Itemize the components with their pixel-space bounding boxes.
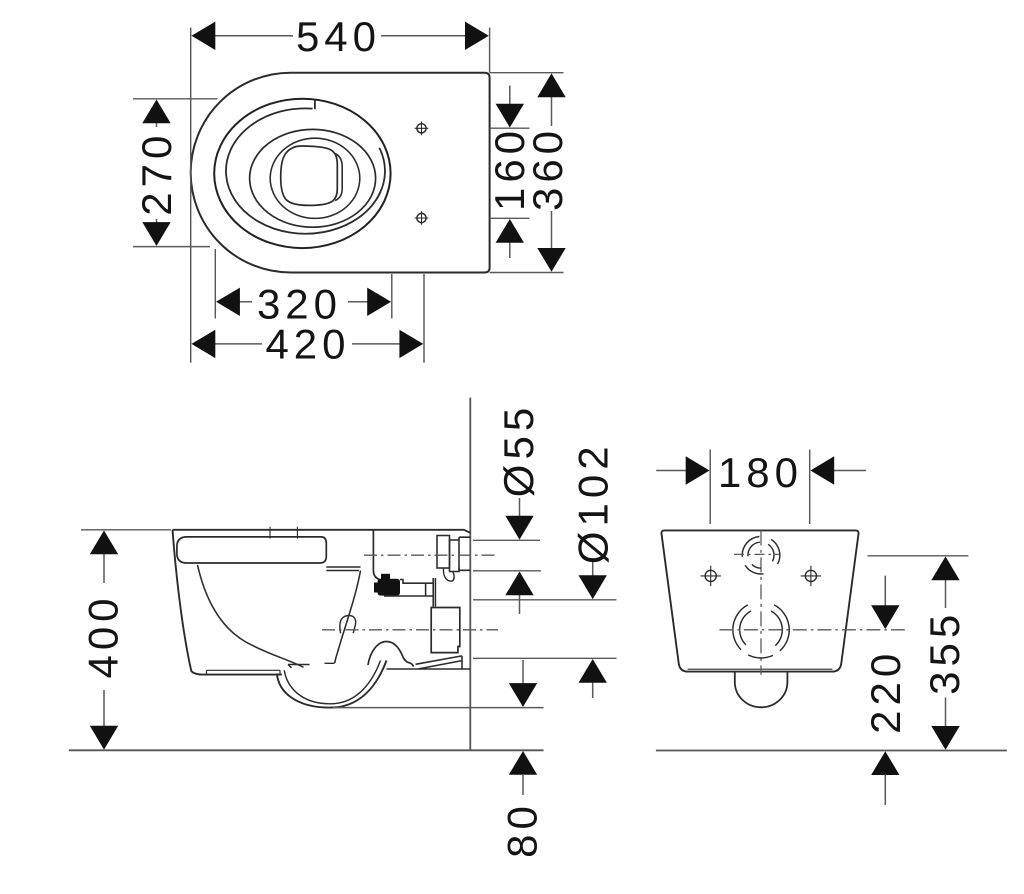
dimension 80 leader top	[522, 660, 524, 684]
svg-text:80: 80	[499, 801, 546, 858]
bowl interior back curve	[335, 571, 361, 664]
dimension Ø55 tick top	[473, 539, 540, 541]
svg-text:Ø102: Ø102	[570, 441, 617, 564]
svg-text:360: 360	[524, 126, 571, 211]
dimension 400 arrow bottom	[90, 726, 118, 750]
dimension 180 arrow left	[686, 456, 710, 484]
dimension 420 line	[214, 343, 400, 345]
dimension 360 line	[551, 94, 553, 250]
svg-text:180: 180	[718, 449, 803, 496]
dimension 270 extension line top	[133, 98, 218, 100]
dimension Ø102 arrow top	[579, 575, 607, 599]
dimension 220 arrow top	[871, 605, 899, 629]
flush rim lines	[326, 567, 360, 571]
dimension 160 arrow top	[496, 104, 524, 128]
dimension 80 arrow top	[509, 683, 537, 707]
dimension 160 leader bottom	[509, 241, 511, 259]
dimension 420 extension line right	[423, 274, 425, 363]
side view bottom inner line	[207, 670, 281, 674]
wall line	[469, 398, 471, 751]
dimension 420 arrow left	[192, 330, 216, 358]
body outline top view (stadium shape)	[191, 73, 490, 273]
dimension 80 leader bottom	[522, 774, 524, 795]
flush distributor pocket	[340, 616, 356, 634]
dimension 400 line	[103, 552, 105, 727]
dimension 320 extension line right	[391, 274, 393, 319]
seat spiral hook connector	[314, 100, 316, 110]
dimension Ø102 arrow bottom	[579, 659, 607, 683]
svg-text:Ø55: Ø55	[495, 403, 542, 497]
dimension 320 line	[238, 301, 370, 303]
dimension Ø102 tick top	[473, 599, 617, 601]
side view front face	[173, 530, 282, 675]
bowl rim outer oval	[250, 129, 376, 227]
dimension 360 arrow top	[537, 73, 565, 97]
seat ring outer oval	[214, 99, 390, 248]
dimension 80 arrow bottom	[509, 751, 537, 775]
valve housing lines	[384, 578, 435, 607]
inlet connector flange	[450, 540, 460, 572]
bowl bottom reference line (80 dim)	[333, 707, 544, 709]
dimension 420 arrow right	[399, 330, 423, 358]
outlet horizontal centerline	[719, 629, 908, 631]
dimension 160 tick top	[490, 127, 530, 129]
dimension Ø55 tick bottom	[473, 570, 541, 572]
dimension 180 extension left	[709, 450, 711, 525]
water surface right bump	[335, 154, 342, 201]
dimension 540 arrow left	[192, 22, 216, 50]
dimension 355 arrow bottom	[931, 726, 959, 750]
dimension 360 extension line top	[490, 72, 564, 74]
bowl interior front curve	[198, 565, 304, 667]
svg-text:270: 270	[133, 131, 180, 216]
dimension 220 leader top	[884, 576, 886, 607]
dimension 220 leader bottom	[884, 774, 886, 805]
dimension 400 arrow top	[90, 531, 118, 555]
outlet bottom slant lines	[387, 656, 471, 669]
bowl underside U outer	[277, 661, 387, 708]
svg-text:540: 540	[296, 13, 381, 60]
rear fixing hole right (crosshair)	[801, 566, 821, 586]
dimension 270 arrow top	[142, 100, 170, 124]
dimension 180 extension right	[809, 450, 811, 525]
seat slab side view	[177, 537, 326, 563]
outlet centerline (dash-dot)	[322, 629, 498, 631]
dimension 540 extension line right	[489, 28, 491, 73]
side view top edge	[173, 530, 471, 533]
dimension 270 extension line bottom	[133, 246, 210, 248]
trap weir hump	[368, 642, 414, 667]
seat ring spiral inner arc	[226, 108, 385, 233]
dimension 180 arrow right	[810, 456, 834, 484]
dimension 540 line	[213, 35, 467, 37]
rear outlet bump	[735, 672, 788, 708]
dimension 320 arrow right	[367, 288, 391, 316]
inlet hook curve	[443, 568, 454, 582]
svg-text:420: 420	[265, 321, 350, 368]
outlet phantom arcs	[733, 605, 789, 658]
dimension 160 arrow bottom	[496, 219, 524, 243]
dimension 355 line	[945, 580, 947, 727]
inlet centerline (dash-dot)	[364, 554, 498, 556]
inlet horizontal centerline	[734, 553, 779, 555]
back of bowl vertical	[373, 530, 379, 580]
dimension 180 leader right	[833, 470, 867, 472]
dimension 220 arrow bottom	[871, 751, 899, 775]
outlet spigot box	[431, 608, 460, 653]
dimension 540 arrow right	[465, 22, 489, 50]
dimension Ø55 leader bottom	[519, 593, 521, 614]
dimension 320 arrow left	[216, 288, 240, 316]
dimension Ø55 leader top	[519, 498, 521, 518]
inlet phantom arcs	[742, 537, 780, 574]
dimension Ø102 leader top	[592, 560, 594, 578]
bowl rim inner oval	[270, 138, 360, 218]
dimension 400 extension top	[81, 529, 171, 531]
dimension 270 arrow bottom	[142, 222, 170, 246]
svg-text:400: 400	[80, 593, 127, 678]
dimension 160 leader top	[509, 86, 511, 107]
rear fixing hole left (crosshair)	[701, 566, 721, 586]
dimension 270 line	[156, 120, 158, 226]
dimension 355 extension top	[868, 555, 969, 557]
inlet pipe through wall	[459, 537, 470, 570]
bowl underside U inner	[284, 661, 380, 704]
dimension 160 tick bottom	[490, 217, 530, 219]
floor line right	[656, 750, 1007, 752]
dimension Ø55 arrow bottom	[505, 572, 533, 596]
water surface squircle	[281, 146, 338, 205]
inlet connector rect inner	[437, 536, 450, 569]
dimension 540 extension line left	[190, 28, 192, 363]
rear vertical centerline (dashed)	[760, 530, 762, 674]
dimension 360 arrow bottom	[537, 248, 565, 272]
dimension Ø55 arrow top	[505, 516, 533, 540]
flush valve blob (filled)	[378, 579, 401, 596]
dimension 355 arrow top	[931, 557, 959, 581]
rear view bottom inner line	[688, 668, 833, 670]
fixing hole top (crosshair)	[415, 122, 429, 136]
seat hinge ticks	[270, 527, 297, 539]
svg-text:355: 355	[921, 610, 968, 695]
rear view trapezoid body	[661, 530, 858, 671]
dimension 360 extension line bottom	[490, 272, 564, 274]
dimension 320 extension line left	[214, 249, 216, 319]
fixing hole bottom (crosshair)	[415, 211, 429, 225]
floor line left	[69, 749, 544, 751]
svg-text:220: 220	[862, 649, 909, 734]
dimension Ø102 tick bottom	[473, 657, 617, 659]
dimension Ø102 leader bottom	[592, 681, 594, 698]
dimension 180 leader left	[656, 470, 688, 472]
bowl interior bottom lines	[288, 663, 335, 668]
